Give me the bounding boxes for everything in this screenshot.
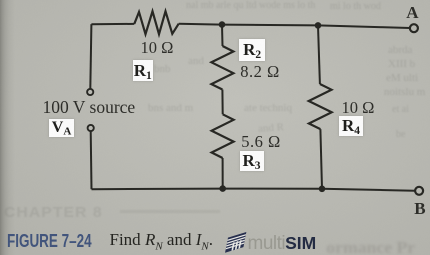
terminal circle: node A [410,24,418,32]
label box R1 [133,60,154,82]
ghost bleed-through middle fragments [188,55,204,67]
resistor R4 (10 ohm, vertical zigzag) [309,84,332,129]
caption label FIGURE 7-24 [7,230,92,252]
junction dot: bottom of middle branch [219,185,226,192]
node label A [406,3,418,23]
label box R4 [339,116,364,137]
value label 8.2 ohm (R2) [240,62,280,82]
resistor R2 (8.2 ohm, vertical zigzag) [211,46,233,90]
value label 10 ohm (R4) [342,98,375,118]
value label 10 ohm (R1) [141,38,174,58]
wire: bottom rail to node B terminal [92,189,415,191]
terminal circle: source top [87,89,93,95]
label box R3 [240,151,264,172]
ghost CHAPTER 8 header from reverse side [4,204,103,221]
caption text Find RN and IN [110,230,213,252]
resistor R1 (10 ohm, horizontal zigzag) [134,11,178,34]
ghost bleed-through right column [388,44,412,56]
wire: left vertical upper (to source top terminal) [90,24,91,89]
wire: middle branch between R2 and R3 [221,90,223,115]
ghost bleed-through text top [186,0,315,11]
ghost dark patch bottom-right (reverse-side headline) [326,238,415,255]
wire: left vertical lower (source bottom to bottom rail) [90,131,93,189]
wire: middle branch top stub [221,25,224,46]
junction dot: top of right branch [315,22,322,29]
multiSIM logo text [248,233,317,255]
wire: top horizontal from R1 to node A terminal [179,24,410,28]
multiSIM logo icon (layered chip) [220,231,250,253]
terminal circle: source bottom [88,125,94,131]
junction dot: top of middle branch [219,21,226,28]
wire: right branch bottom stub [320,129,322,189]
wire: top-left horizontal from source corner to R1 [91,23,134,25]
label 100 V source [43,97,136,118]
wire: right branch top stub [318,25,320,84]
label box R2 [239,39,265,61]
label box VA (source voltage) [49,119,75,137]
left page-edge shading [0,0,16,255]
figure caption [7,230,123,252]
value label 5.6 ohm (R3) [241,132,281,152]
terminal circle: node B [415,187,423,195]
node label B [414,199,425,219]
junction dot: bottom of right branch [319,186,326,193]
wire: middle branch bottom stub [222,158,224,189]
resistor R3 (5.6 ohm, vertical zigzag) [212,114,234,158]
